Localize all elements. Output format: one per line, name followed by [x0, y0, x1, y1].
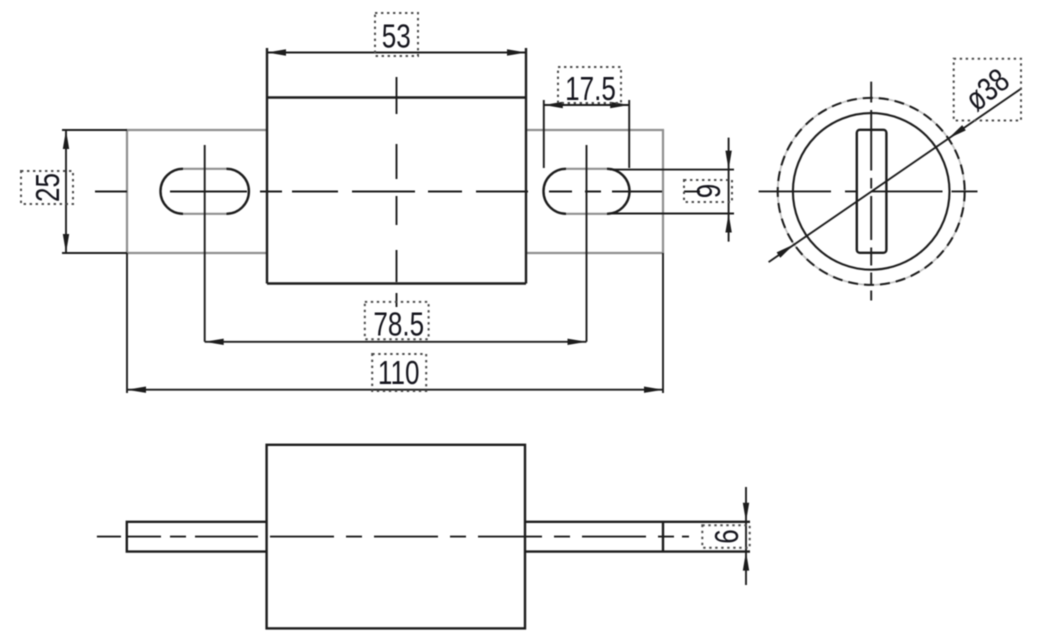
svg-text:ø38: ø38 [959, 62, 1017, 119]
svg-text:6: 6 [709, 529, 746, 543]
svg-text:53: 53 [382, 19, 411, 56]
svg-text:110: 110 [378, 355, 420, 392]
svg-text:9: 9 [691, 184, 728, 198]
svg-text:78.5: 78.5 [373, 307, 424, 344]
svg-text:25: 25 [30, 173, 67, 202]
svg-text:17.5: 17.5 [565, 71, 616, 108]
